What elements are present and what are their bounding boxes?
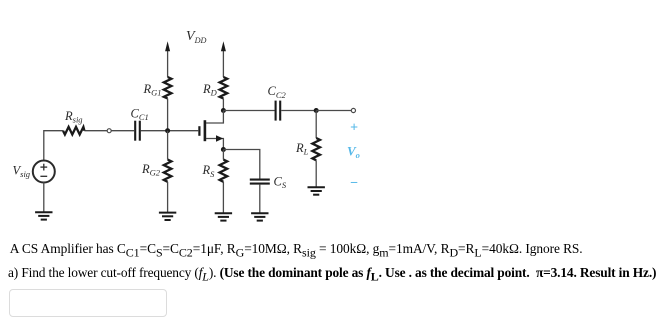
svg-text:CC2: CC2 xyxy=(268,84,287,100)
junction gate node xyxy=(165,128,170,133)
wire CS to ground xyxy=(259,185,261,214)
wire gate node to RG2 xyxy=(167,131,169,160)
question text line 2 xyxy=(8,265,656,281)
resistor RS xyxy=(220,160,228,182)
input open node xyxy=(107,129,111,133)
wire Rsig to open node xyxy=(84,130,107,132)
wire gate lead xyxy=(141,130,199,132)
wire RG1 to gate node xyxy=(167,99,169,131)
junction drain node xyxy=(221,108,226,113)
wire Vsig to ground xyxy=(43,182,45,212)
source Vsig xyxy=(33,161,55,183)
power VDD arrow right xyxy=(221,41,226,77)
svg-text:RD: RD xyxy=(202,82,218,98)
transistor Q1 xyxy=(199,111,223,150)
wire RG2 to ground xyxy=(167,182,169,213)
svg-text:−: − xyxy=(350,176,358,191)
resistor RD xyxy=(220,77,228,99)
wire CC2 to output node xyxy=(281,110,316,112)
svg-text:RS: RS xyxy=(202,163,216,179)
circuit schematic xyxy=(0,0,380,232)
svg-text:RL: RL xyxy=(295,141,309,157)
wire RS to ground xyxy=(222,182,224,213)
svg-text:VDD: VDD xyxy=(186,29,206,45)
junction source node xyxy=(221,147,226,152)
wire Vsig to Rsig xyxy=(44,131,63,161)
svg-text:Vo: Vo xyxy=(347,144,360,160)
svg-text:Rsig: Rsig xyxy=(64,109,83,125)
wire RL to ground xyxy=(315,160,317,187)
wire CC1 to open node xyxy=(111,130,134,132)
svg-text:RG1: RG1 xyxy=(143,82,162,98)
resistor Rsig xyxy=(63,127,84,135)
wire output node to terminal xyxy=(316,110,351,112)
svg-text:CS: CS xyxy=(274,174,287,190)
output terminal xyxy=(351,108,355,112)
ground RG2 xyxy=(159,213,176,220)
svg-text:CC1: CC1 xyxy=(131,107,149,123)
capacitor CC2 xyxy=(276,101,281,121)
wire drain node to CC2 xyxy=(223,110,274,112)
ground Vsig xyxy=(35,212,52,219)
wire source node to RS xyxy=(222,150,224,160)
svg-text:Vsig: Vsig xyxy=(13,163,31,179)
resistor RG2 xyxy=(164,160,172,182)
question text line 1 xyxy=(10,241,583,257)
capacitor CC1 xyxy=(135,121,140,141)
wire source node to CS xyxy=(223,150,259,179)
ground RL xyxy=(308,187,325,194)
junction output node xyxy=(314,108,319,113)
wire RD to drain node xyxy=(222,99,224,111)
wire output node to RL xyxy=(315,111,317,139)
resistor RL xyxy=(312,138,320,160)
capacitor CS xyxy=(250,180,270,184)
svg-text:+: + xyxy=(350,120,358,135)
ground CS xyxy=(251,213,268,220)
ground RS xyxy=(215,213,232,220)
power VDD arrow left xyxy=(165,41,170,77)
svg-text:RG2: RG2 xyxy=(141,162,161,178)
answer input box xyxy=(9,289,167,317)
resistor RG1 xyxy=(164,77,172,99)
